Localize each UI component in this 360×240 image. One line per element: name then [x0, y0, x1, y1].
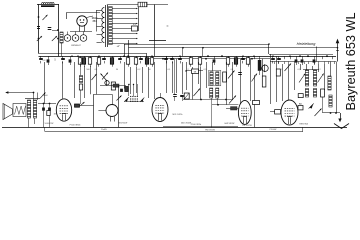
svg-text:RFN9047: RFN9047: [71, 45, 81, 47]
svg-text:P500W: P500W: [270, 129, 277, 131]
svg-text:Bayreuth 653 WL: Bayreuth 653 WL: [344, 12, 358, 110]
svg-text:AÜ: AÜ: [299, 102, 302, 105]
svg-text:30: 30: [116, 69, 118, 71]
svg-text:HW 5R2W: HW 5R2W: [205, 130, 215, 132]
svg-text:0,1: 0,1: [298, 69, 301, 71]
svg-text:≈: ≈: [167, 24, 169, 28]
svg-text:10000: 10000: [42, 95, 47, 97]
svg-text:P=4/5: P=4/5: [101, 129, 107, 131]
svg-text:0,2: 0,2: [138, 69, 141, 71]
svg-text:0,1: 0,1: [95, 69, 98, 71]
svg-text:M31 1W2b: M31 1W2b: [173, 114, 184, 116]
svg-text:500Ω/2W: 500Ω/2W: [45, 123, 54, 125]
svg-text:HW 5R2W: HW 5R2W: [225, 123, 235, 125]
svg-text:P500 3R2b: P500 3R2b: [70, 124, 82, 126]
svg-text:2: 2: [319, 69, 320, 71]
svg-text:+V: +V: [117, 46, 120, 48]
svg-text:P500 3R2b: P500 3R2b: [191, 124, 202, 126]
svg-text:0,5: 0,5: [204, 69, 207, 71]
svg-text:500: 500: [86, 69, 89, 71]
svg-text:0,1: 0,1: [231, 69, 234, 71]
svg-text:5615 S/2W: 5615 S/2W: [181, 123, 191, 125]
svg-text:1W 5R2W: 1W 5R2W: [242, 125, 252, 127]
svg-text:RES 964: RES 964: [299, 123, 308, 125]
svg-text:NÖ1/V2W: NÖ1/V2W: [118, 121, 127, 124]
svg-text:1M: 1M: [54, 114, 57, 116]
svg-text:Heizleitung: Heizleitung: [297, 42, 317, 46]
svg-text:0,1: 0,1: [168, 69, 171, 71]
